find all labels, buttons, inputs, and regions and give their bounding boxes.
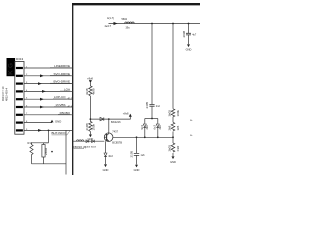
svg-text:D313: D313 bbox=[16, 57, 24, 61]
wire GND stub bbox=[24, 122, 52, 124]
inductor 39u bbox=[125, 22, 135, 24]
connector pin 9 bbox=[16, 129, 23, 131]
resistor 21R8 bbox=[89, 122, 92, 132]
svg-text:K: K bbox=[8, 70, 15, 75]
wire BVO-DRIVE bbox=[24, 83, 73, 85]
svg-text:39u: 39u bbox=[126, 27, 131, 30]
connector pin 7 bbox=[16, 114, 23, 116]
capacitor 2n2 bbox=[149, 105, 154, 107]
svg-text:GND: GND bbox=[103, 168, 109, 172]
svg-text:1u6: 1u6 bbox=[141, 154, 146, 157]
wire down from bus to cap bbox=[136, 137, 138, 153]
diode S403 bbox=[92, 140, 95, 143]
svg-text:2k0: 2k0 bbox=[158, 125, 162, 130]
svg-text:6c3: 6c3 bbox=[153, 125, 157, 130]
diode D2 bbox=[144, 119, 146, 124]
node bbox=[151, 23, 153, 25]
wire LOP-CO bbox=[24, 98, 73, 100]
resistor 3k48 bbox=[89, 86, 92, 96]
svg-text:GND: GND bbox=[134, 168, 140, 172]
connector pin 5 bbox=[16, 98, 23, 100]
svg-text:1k5: 1k5 bbox=[176, 125, 180, 130]
svg-text:2098: 2098 bbox=[182, 30, 186, 37]
connector pin 3 bbox=[16, 83, 23, 85]
wire down at x152 bbox=[151, 24, 153, 105]
resistor 3k05 bbox=[171, 109, 175, 117]
svg-text:X3R: X3R bbox=[176, 145, 180, 152]
svg-text:+8v8: +8v8 bbox=[87, 76, 93, 80]
wire LINEDRIVE bbox=[24, 67, 73, 69]
svg-text:4G3: 4G3 bbox=[108, 155, 113, 158]
ground bbox=[187, 44, 190, 47]
svg-text:GND: GND bbox=[170, 160, 176, 164]
svg-text:4u7: 4u7 bbox=[192, 34, 197, 37]
wire from BHT-INFO down right side bbox=[65, 130, 67, 174]
svg-text:240R: 240R bbox=[44, 147, 48, 155]
svg-text:5602: 5602 bbox=[122, 18, 128, 21]
node bbox=[151, 118, 153, 120]
pin number labels bbox=[26, 66, 28, 130]
supply +8v8 (right, arrow up) bbox=[129, 114, 132, 117]
svg-text:100k: 100k bbox=[176, 109, 180, 116]
svg-text:9c3: 9c3 bbox=[140, 125, 144, 130]
svg-text:S403 S403: S403 S403 bbox=[85, 147, 97, 149]
wire diode pair rail bbox=[145, 118, 158, 120]
connector pin 2 bbox=[16, 75, 23, 77]
connector pin 6 bbox=[16, 106, 23, 108]
svg-text:2105: 2105 bbox=[130, 150, 134, 157]
diode BAS216 bbox=[100, 117, 104, 120]
svg-text:G: G bbox=[8, 63, 15, 68]
svg-text:100k: 100k bbox=[92, 123, 96, 130]
diode D3 bbox=[157, 119, 159, 124]
wire bbox=[89, 83, 91, 86]
svg-text:4er1T: 4er1T bbox=[105, 25, 112, 28]
node BAS216 junction bbox=[90, 118, 92, 120]
node bbox=[108, 118, 110, 120]
svg-text:A2-2: A2-2 bbox=[68, 97, 73, 100]
node on BHT-INFO wire bbox=[48, 130, 50, 132]
svg-text:3k48: 3k48 bbox=[85, 88, 89, 95]
ground bbox=[89, 135, 92, 138]
svg-text:BHT-INFO: BHT-INFO bbox=[52, 131, 67, 135]
ground stub symbol bbox=[51, 120, 54, 123]
svg-text:+8v8: +8v8 bbox=[123, 111, 129, 115]
connector pin 1 bbox=[16, 67, 23, 69]
svg-text:2405: 2405 bbox=[145, 101, 149, 108]
svg-text:BC857B: BC857B bbox=[112, 140, 122, 144]
wire bbox=[172, 132, 174, 144]
svg-text:21R8: 21R8 bbox=[85, 123, 89, 131]
ground bbox=[172, 156, 175, 159]
wire top rail of R11 network bbox=[32, 142, 49, 144]
wire emitter down bbox=[105, 141, 107, 153]
wire collector bus bbox=[113, 136, 173, 138]
node bbox=[188, 23, 190, 25]
wire SVO-DRIVE bbox=[24, 75, 73, 77]
wire bbox=[172, 153, 174, 156]
svg-text:2n2: 2n2 bbox=[156, 105, 161, 108]
wire bbox=[188, 35, 190, 44]
svg-text:A(1-7): A(1-7) bbox=[107, 17, 114, 20]
inductor bead on base wire bbox=[77, 140, 84, 141]
module boundary top bar bbox=[72, 3, 200, 5]
svg-text:2k0: 2k0 bbox=[145, 125, 149, 130]
capacitor 1u6 bbox=[134, 153, 139, 155]
svg-text:GND: GND bbox=[55, 120, 61, 124]
wire bbox=[105, 157, 107, 165]
wire down at x173 bbox=[172, 24, 174, 109]
wire bbox=[89, 96, 91, 122]
connector J1 outline bbox=[15, 62, 24, 135]
node bbox=[172, 23, 174, 25]
transistor Q1 BC857B bbox=[104, 133, 113, 142]
module boundary left edge bbox=[72, 3, 74, 175]
ground bbox=[104, 164, 107, 167]
wire emitter up bbox=[108, 119, 110, 133]
connector pin 8 bbox=[16, 122, 23, 124]
wire LOA bbox=[24, 90, 73, 92]
node bus joins bbox=[172, 136, 174, 138]
wire bbox=[172, 117, 174, 123]
connector pin 4 bbox=[16, 90, 23, 92]
capacitor 4u7 bbox=[186, 33, 191, 35]
wire drop to R11 network bbox=[48, 130, 50, 142]
svg-text:BAS216: BAS216 bbox=[111, 120, 121, 124]
wire down at x188.5 bbox=[188, 24, 190, 34]
resistor 2k8 bbox=[171, 122, 175, 131]
node bbox=[157, 136, 159, 138]
node bbox=[136, 136, 138, 138]
wire BHT-INFO bbox=[24, 129, 73, 131]
diode S403 bbox=[86, 140, 89, 143]
wire BAS216 net bbox=[90, 115, 130, 120]
svg-text:R11: R11 bbox=[28, 141, 33, 145]
ground bbox=[135, 165, 138, 168]
connector label box (K G) bbox=[7, 58, 16, 76]
svg-text:A2-4: A2-4 bbox=[68, 105, 73, 108]
wire FBCBO bbox=[24, 114, 73, 116]
svg-text:GND: GND bbox=[186, 48, 192, 52]
wire bbox=[136, 156, 138, 165]
svg-text:2k8: 2k8 bbox=[168, 125, 172, 130]
wire bbox=[151, 107, 153, 119]
svg-text:7437: 7437 bbox=[112, 130, 118, 134]
svg-text:3k05: 3k05 bbox=[168, 110, 172, 117]
svg-text:4822 403-4: 4822 403-4 bbox=[4, 87, 8, 101]
svg-text:2k05: 2k05 bbox=[168, 145, 172, 152]
wire bottom rail of R11 network bbox=[32, 163, 67, 165]
wire bbox=[89, 132, 91, 135]
svg-text:4k99: 4k99 bbox=[92, 88, 96, 95]
diode D (emitter to gnd) bbox=[104, 153, 107, 156]
wire I/CVBS bbox=[24, 106, 73, 108]
resistor 2k05 bbox=[171, 143, 175, 152]
node (floating junction) bbox=[51, 151, 53, 153]
node bbox=[144, 136, 146, 138]
wire base bbox=[73, 140, 105, 142]
resistor 240R bbox=[42, 145, 45, 158]
top feed wire bbox=[109, 23, 201, 25]
